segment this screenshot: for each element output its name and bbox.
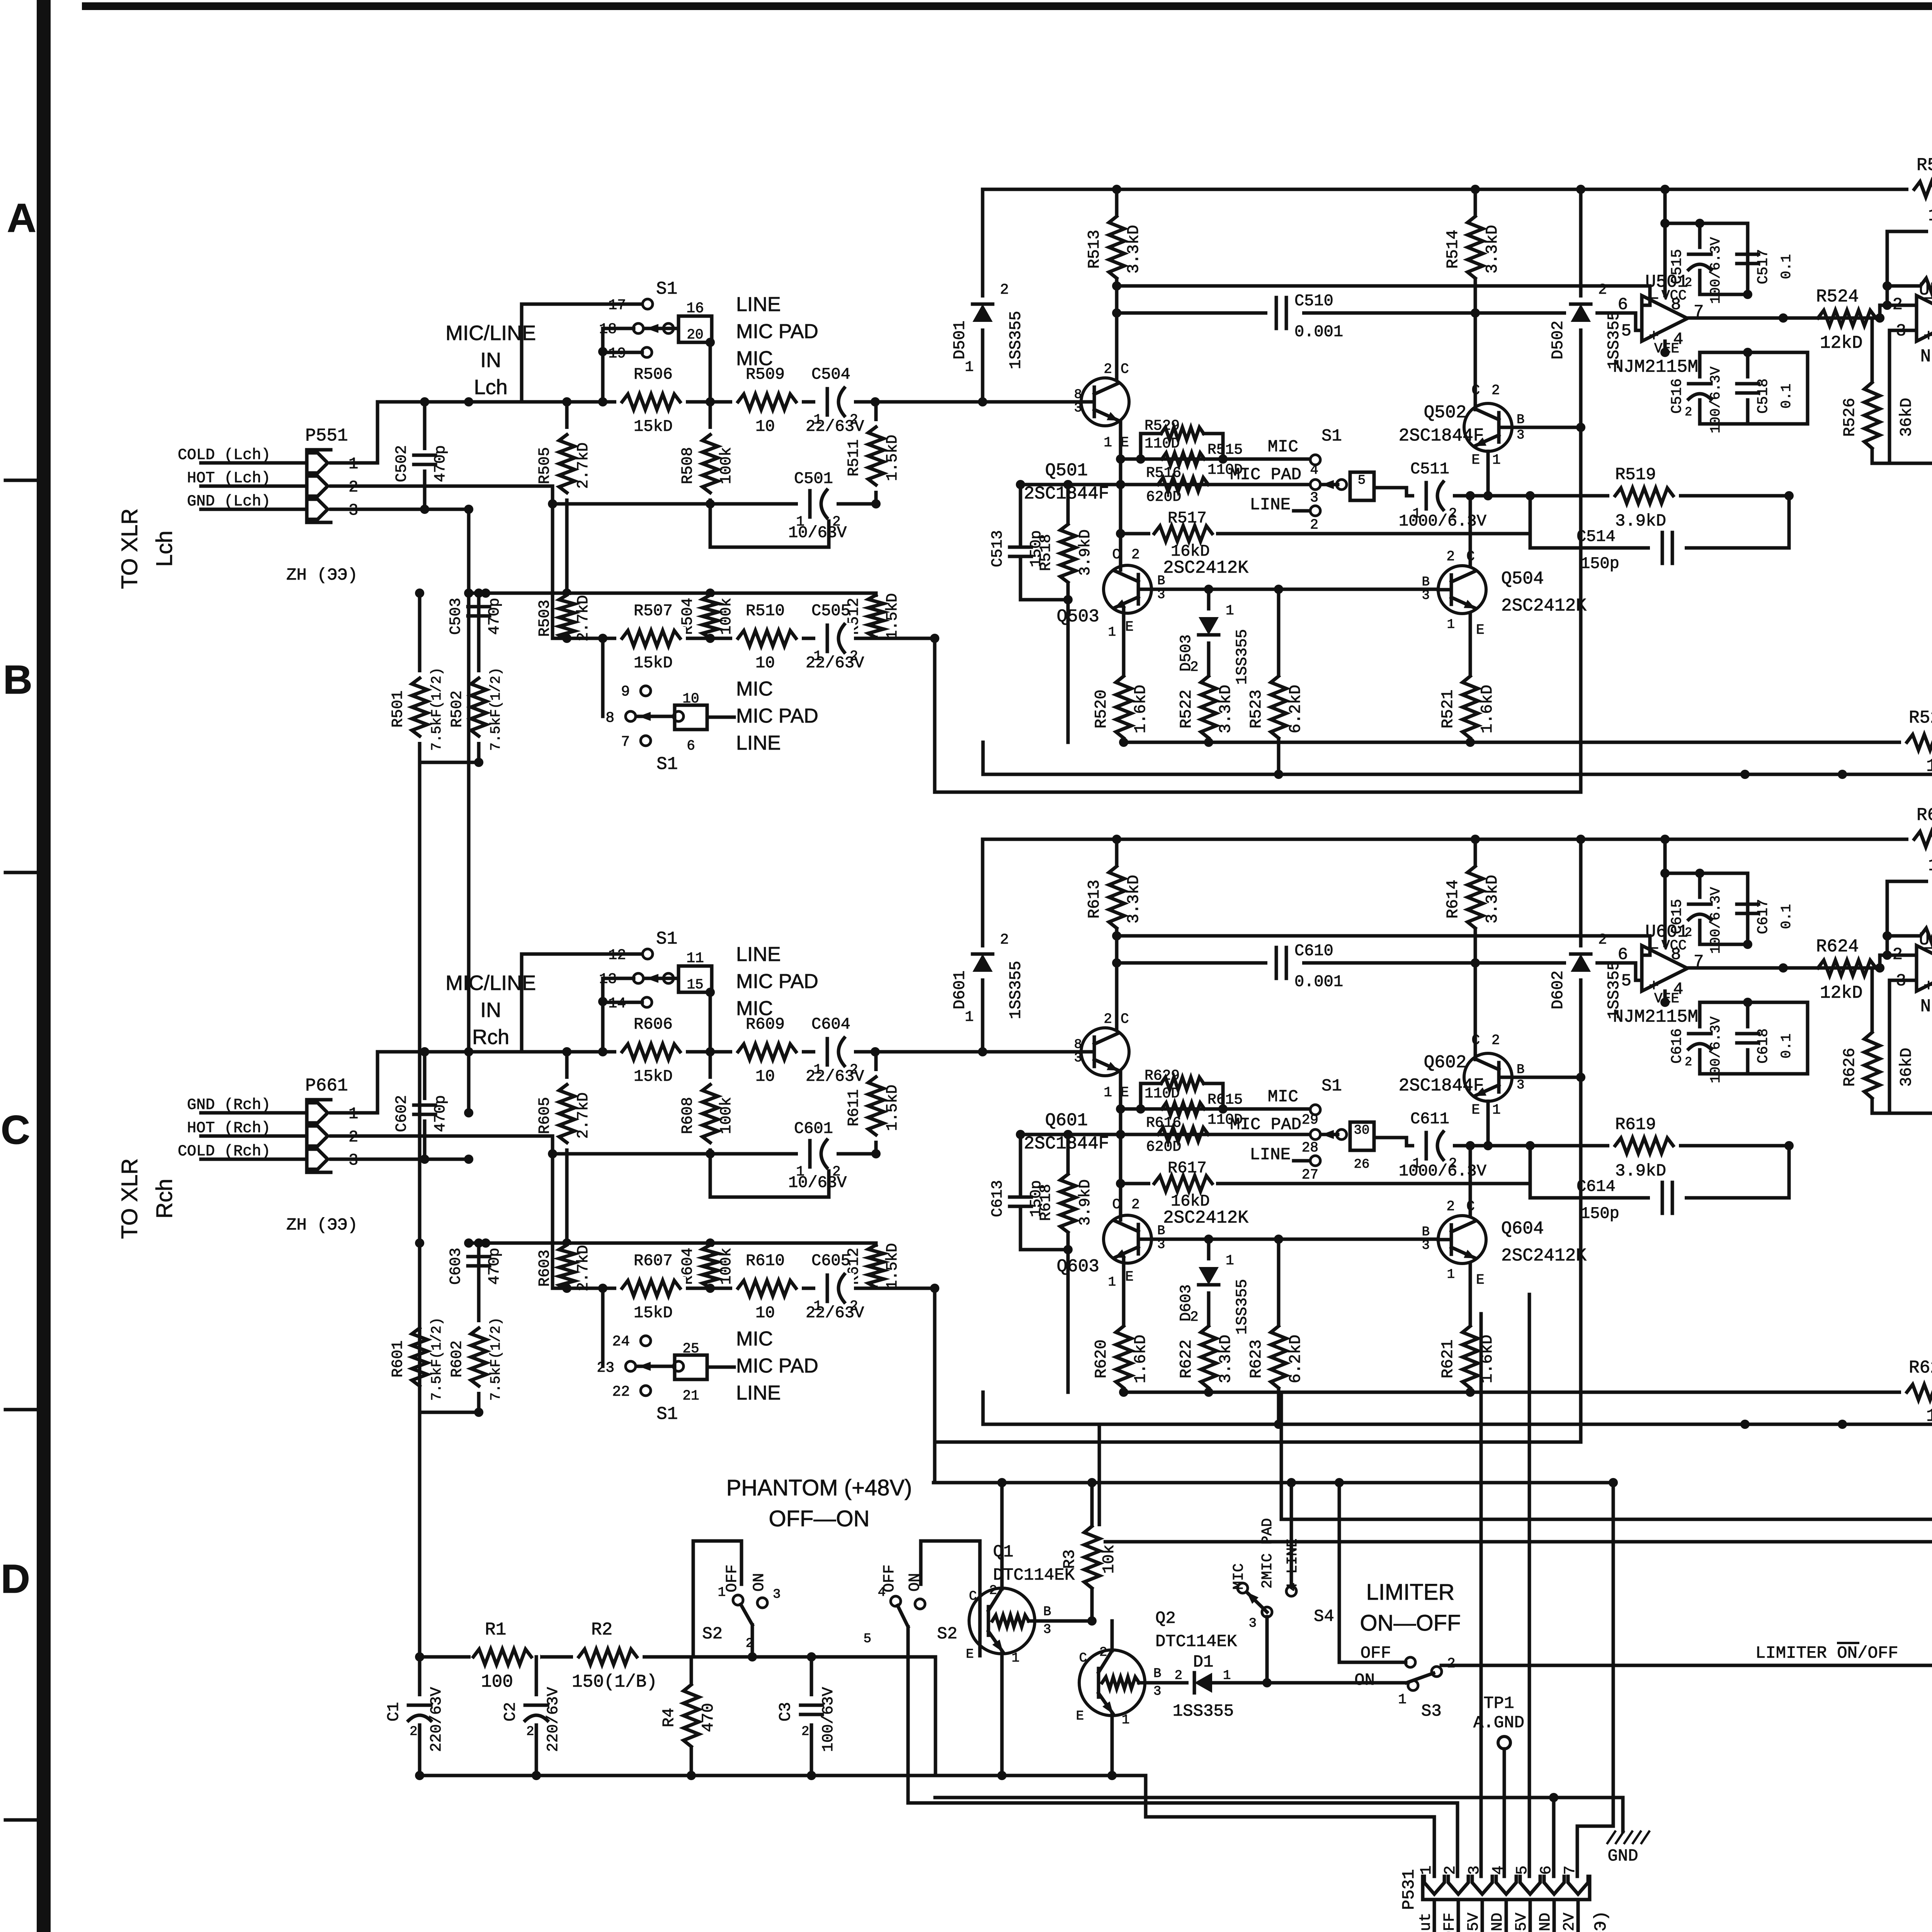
svg-text:2: 2 (1685, 405, 1692, 419)
svg-text:S4: S4 (1314, 1607, 1334, 1626)
switch S1 mid box (1350, 472, 1374, 500)
capacitor C502 470p (423, 402, 427, 509)
svg-text:R626: R626 (1840, 1048, 1859, 1087)
svg-text:C601: C601 (794, 1119, 833, 1138)
switch S1 box (679, 966, 712, 992)
svg-text:3: 3 (1517, 428, 1524, 443)
svg-text:12kD: 12kD (1820, 983, 1862, 1003)
wire vee rail link (1806, 1002, 1810, 1074)
resistor R621 1.6kD (1469, 1324, 1472, 1392)
diode D503 1SS355 (1207, 589, 1211, 672)
op-amp U501 NJM2115M second (1917, 296, 1932, 341)
border tick (5, 1818, 39, 1822)
svg-text:0.1: 0.1 (1779, 1034, 1794, 1059)
svg-text:C604: C604 (811, 1015, 850, 1034)
wire feedback node (1880, 305, 1917, 318)
svg-text:16kD: 16kD (1171, 1192, 1210, 1211)
capacitor C604 22/63V (815, 1036, 854, 1067)
resistor R514 3.3kD (1474, 189, 1477, 383)
svg-text:22/63V: 22/63V (806, 654, 864, 672)
svg-text:470p: 470p (486, 1248, 503, 1285)
wire phantom bottom rail (420, 1774, 1146, 1777)
svg-text:R603: R603 (536, 1250, 554, 1287)
resistor R612 1.5kD (874, 1243, 878, 1288)
svg-text:NJM2115M: NJM2115M (1920, 997, 1932, 1017)
svg-text:3: 3 (1074, 401, 1082, 416)
svg-text:2SC2412K: 2SC2412K (1163, 558, 1248, 578)
resistor R517 16kD (1121, 532, 1530, 536)
resistor R615 110D (1121, 1107, 1310, 1111)
svg-text:Q2: Q2 (1155, 1609, 1176, 1628)
svg-text:R523: R523 (1247, 690, 1265, 729)
svg-text:7.5kF(1/2): 7.5kF(1/2) (488, 667, 504, 751)
svg-text:3.3kD: 3.3kD (1483, 875, 1502, 923)
svg-text:22/63V: 22/63V (806, 1304, 864, 1322)
svg-text:C: C (1121, 1011, 1129, 1027)
svg-text:Lch: Lch (474, 376, 507, 399)
svg-text:S1: S1 (656, 929, 677, 949)
wire Q504 collector (1469, 496, 1472, 566)
capacitor C616 100/6.3V and C618 0.1 (1700, 1001, 1808, 1004)
svg-text:2: 2 (526, 1725, 534, 1739)
svg-text:1: 1 (1226, 1253, 1234, 1269)
resistor R610 10 (732, 1277, 802, 1300)
wire P531 pin2 wrap (908, 1803, 1458, 1876)
svg-text:Q602: Q602 (1424, 1053, 1466, 1073)
svg-text:2: 2 (1131, 1197, 1140, 1213)
svg-text:R514: R514 (1444, 230, 1462, 269)
resistor R516 620D (1020, 483, 1310, 486)
svg-text:1000/6.3V: 1000/6.3V (1399, 512, 1486, 531)
svg-text:1000/6.3V: 1000/6.3V (1399, 1162, 1486, 1180)
wire Q2 collector (1111, 1621, 1114, 1651)
svg-text:C1: C1 (384, 1702, 403, 1721)
svg-text:GND (Lch): GND (Lch) (187, 493, 270, 510)
svg-text:3.9kD: 3.9kD (1615, 512, 1666, 531)
svg-text:3.9kD: 3.9kD (1615, 1162, 1666, 1181)
svg-text:1: 1 (1447, 617, 1455, 632)
svg-text:Q502: Q502 (1424, 403, 1466, 423)
wire Q2 emitter (1111, 1714, 1114, 1776)
resistor R4 470 (690, 1657, 693, 1776)
svg-text:S1: S1 (656, 754, 678, 774)
svg-text:1: 1 (718, 1585, 726, 1600)
svg-text:OFF: OFF (724, 1565, 741, 1592)
svg-text:2: 2 (1685, 276, 1692, 290)
svg-text:D601: D601 (951, 971, 969, 1010)
svg-text:MIC: MIC (1231, 1563, 1247, 1590)
diode D602 1SS355 (1579, 839, 1583, 1077)
switch S1 mid box (1350, 1122, 1374, 1150)
svg-text:1SS355: 1SS355 (1007, 311, 1025, 369)
svg-text:L ON-OFF: L ON-OFF (1441, 1913, 1459, 1932)
resistor R502 7.5kF(1/2) (477, 593, 481, 762)
svg-text:E: E (1471, 1102, 1480, 1118)
wire P531 pin7 wrap (1577, 1483, 1613, 1876)
wire power rail to gnd (935, 1796, 1623, 1799)
svg-text:TP1: TP1 (1483, 1694, 1514, 1713)
resistor R510 10 (732, 627, 802, 650)
wire pin1 riser (331, 1052, 378, 1113)
svg-text:5: 5 (864, 1632, 871, 1646)
svg-text:COLD (Rch): COLD (Rch) (178, 1143, 270, 1160)
svg-text:IN: IN (480, 998, 501, 1022)
wire top rail Rch (983, 838, 1932, 841)
resistor R607 15kD (616, 1277, 686, 1300)
capacitor C501 10/63V (710, 504, 829, 547)
svg-text:220/63V: 220/63V (545, 1687, 562, 1752)
svg-text:22: 22 (612, 1384, 630, 1400)
svg-text:2: 2 (1104, 361, 1112, 377)
svg-text:LINE: LINE (736, 293, 781, 316)
svg-text:29: 29 (1302, 1112, 1318, 1128)
wire U501 output (1687, 966, 1812, 970)
svg-text:1: 1 (1398, 1692, 1406, 1708)
svg-text:10: 10 (755, 654, 775, 672)
diode D601 1SS355 (981, 839, 985, 1052)
svg-text:2: 2 (1190, 1309, 1199, 1325)
svg-text:R524: R524 (1816, 287, 1859, 307)
svg-text:27: 27 (1302, 1167, 1318, 1183)
svg-text:3: 3 (1153, 1684, 1161, 1699)
svg-text:R606: R606 (634, 1015, 673, 1034)
capacitor C514 150p (1530, 496, 1789, 548)
wire gnd rail (983, 1423, 1932, 1426)
resistor R523 6.2kD (1277, 589, 1281, 774)
svg-text:R617: R617 (1168, 1159, 1207, 1177)
svg-text:R518: R518 (1037, 534, 1055, 571)
wire Q1 emitter (1000, 1652, 1004, 1776)
svg-text:C3: C3 (776, 1702, 795, 1721)
resistor R524 12kD (1812, 306, 1882, 330)
svg-text:ON: ON (1354, 1671, 1375, 1690)
svg-text:R613: R613 (1085, 880, 1104, 919)
svg-text:8: 8 (1671, 945, 1681, 964)
svg-text:R614: R614 (1444, 880, 1462, 919)
border frame left bar (37, 0, 51, 1932)
diode D501 1SS355 (981, 189, 985, 402)
svg-text:MIC: MIC (736, 1328, 773, 1350)
svg-text:10: 10 (1926, 1406, 1932, 1426)
svg-text:C: C (1079, 1651, 1087, 1666)
capacitor C619 56p (1887, 881, 1932, 968)
svg-text:B: B (1157, 1224, 1165, 1238)
svg-text:C610: C610 (1294, 942, 1333, 960)
wire P531 pin3 bus (1480, 1314, 1483, 1876)
svg-text:8: 8 (1074, 388, 1082, 402)
transistor Q602 2SC1844F (1464, 1053, 1512, 1101)
svg-text:2: 2 (1685, 1055, 1692, 1069)
svg-text:S3: S3 (1421, 1702, 1442, 1721)
svg-text:+: + (1923, 327, 1932, 346)
capacitor C515 100/6.3V and C517 0.1 (1665, 223, 1748, 294)
svg-text:2: 2 (1104, 1011, 1112, 1027)
resistor R525 18kD (1887, 284, 1920, 288)
wire pin2 riser (331, 1136, 553, 1288)
svg-text:1: 1 (1108, 625, 1116, 640)
svg-text:HOT (Rch): HOT (Rch) (187, 1120, 270, 1137)
wire Q1 base link (1035, 1619, 1092, 1623)
svg-text:3.9kD: 3.9kD (1077, 1179, 1094, 1226)
svg-text:C: C (969, 1589, 977, 1604)
resistor R522 3.3kD (1207, 672, 1211, 742)
svg-text:3.3kD: 3.3kD (1483, 225, 1502, 274)
svg-text:LINE: LINE (736, 943, 781, 966)
svg-text:1: 1 (1418, 1866, 1435, 1875)
svg-text:R511: R511 (845, 439, 863, 476)
svg-text:15kD: 15kD (634, 1067, 673, 1086)
svg-text:COLD (Lch): COLD (Lch) (178, 447, 270, 464)
connector P661 (307, 1100, 331, 1172)
svg-text:21: 21 (682, 1388, 699, 1404)
svg-text:3: 3 (1310, 490, 1318, 506)
svg-text:100/63V: 100/63V (820, 1687, 837, 1752)
resistor R2 150(1/B) (573, 1645, 643, 1668)
svg-text:ON—OFF: ON—OFF (1360, 1611, 1461, 1636)
wire gnd rail (983, 773, 1932, 776)
wire plus input line / C510 row (1117, 963, 1642, 980)
wire emitter-resistor rail (1124, 1391, 1615, 1394)
svg-text:0.1: 0.1 (1779, 904, 1794, 929)
svg-text:R519: R519 (1615, 465, 1656, 485)
svg-text:MIC: MIC (736, 678, 773, 700)
svg-text:MIC: MIC (1268, 437, 1298, 457)
svg-text:22/63V: 22/63V (806, 417, 864, 436)
wire top rail Lch (983, 188, 1932, 191)
svg-text:R628: R628 (1909, 1358, 1932, 1378)
svg-text:C603: C603 (447, 1248, 465, 1285)
svg-text:B: B (1157, 574, 1165, 588)
resistor R619 3.9kD (1609, 1134, 1679, 1157)
wire Q503 base row (1151, 1238, 1438, 1241)
svg-text:C: C (1471, 383, 1480, 398)
svg-text:5: 5 (1621, 971, 1631, 991)
svg-text:PHANTOM (+48V): PHANTOM (+48V) (726, 1475, 912, 1500)
svg-text:R1: R1 (485, 1620, 506, 1640)
svg-text:C518: C518 (1755, 378, 1772, 413)
wire plus input line / C510 row (1117, 313, 1642, 330)
svg-text:3: 3 (1422, 1238, 1430, 1253)
svg-text:7.5kF(1/2): 7.5kF(1/2) (429, 667, 445, 751)
svg-text:24: 24 (612, 1333, 630, 1350)
svg-text:2: 2 (1598, 282, 1607, 298)
svg-text:2.7kD: 2.7kD (575, 442, 592, 489)
svg-text:C511: C511 (1410, 460, 1449, 478)
svg-text:0.001: 0.001 (1294, 323, 1343, 341)
svg-text:P661: P661 (305, 1076, 348, 1096)
svg-text:ON: ON (751, 1573, 768, 1592)
svg-text:+: + (1923, 977, 1932, 996)
wire R519 row (1470, 494, 1789, 498)
svg-text:D501: D501 (951, 321, 969, 360)
wire C511 row (1406, 1144, 1470, 1148)
wire main input row (378, 1050, 1081, 1054)
svg-text:C: C (1112, 1197, 1121, 1213)
svg-text:1: 1 (1012, 1651, 1019, 1666)
svg-text:R503: R503 (536, 600, 554, 637)
svg-text:E: E (1125, 619, 1134, 635)
svg-text:R605: R605 (536, 1097, 554, 1134)
wire phantom top rail (934, 1481, 1613, 1485)
svg-text:MIC PAD: MIC PAD (736, 320, 818, 343)
svg-text:4: 4 (878, 1585, 886, 1600)
svg-text:2: 2 (1000, 282, 1009, 298)
resistor R526 36kD (1871, 318, 1874, 463)
svg-text:10: 10 (755, 1304, 775, 1322)
svg-text:B: B (1422, 575, 1430, 590)
svg-text:R621: R621 (1439, 1340, 1457, 1379)
svg-text:620D: 620D (1146, 489, 1181, 505)
svg-text:R516: R516 (1146, 465, 1181, 481)
capacitor C611 1000/6.3V (1414, 1130, 1453, 1161)
svg-text:3: 3 (1249, 1616, 1257, 1631)
resistor R3 10k (1090, 1483, 1094, 1621)
svg-text:R509: R509 (746, 365, 785, 384)
wire Q504 collector (1469, 1146, 1472, 1216)
transistor Q604 2SC2412K (1438, 1216, 1486, 1264)
svg-text:R627: R627 (1917, 805, 1932, 825)
svg-text:16: 16 (686, 300, 704, 317)
svg-text:6: 6 (1618, 295, 1628, 315)
svg-text:470p: 470p (432, 445, 449, 482)
switch S1 Lch lower (601, 638, 605, 716)
capacitor C605 22/63V (815, 1273, 854, 1304)
wire pin3 gnd stub (331, 508, 469, 511)
resistor R529 110D upper loop (1141, 434, 1161, 459)
svg-text:C: C (1112, 547, 1121, 563)
border tick (5, 479, 39, 482)
svg-text:36kD: 36kD (1897, 1048, 1916, 1087)
svg-text:B: B (3, 657, 32, 702)
svg-text:1: 1 (1122, 1713, 1129, 1728)
svg-text:MIC: MIC (1268, 1087, 1298, 1107)
transistor Q1 DTC114EK (969, 1588, 1035, 1654)
svg-text:2SC2412K: 2SC2412K (1163, 1208, 1248, 1228)
svg-text:LIMITER: LIMITER (1366, 1580, 1455, 1605)
wire P531 pin1 wrap (1146, 1776, 1434, 1876)
wire HOT (Lch) lead (201, 485, 307, 488)
wire Q504 emitter (1469, 613, 1472, 674)
svg-text:A. -5V: A. -5V (1465, 1913, 1483, 1932)
svg-text:R3: R3 (1060, 1549, 1079, 1569)
svg-text:R501: R501 (389, 690, 407, 728)
transistor Q603 2SC2412K (1104, 1215, 1151, 1263)
svg-text:Rch: Rch (152, 1179, 177, 1218)
svg-text:15: 15 (687, 977, 703, 993)
resistor R518 3.9kD (1066, 485, 1070, 600)
svg-text:R607: R607 (634, 1252, 673, 1270)
wire Rch LINE wrap to phantom rail (933, 1442, 937, 1483)
svg-text:0.1: 0.1 (1779, 254, 1794, 279)
resistor R504 100k (709, 593, 712, 638)
svg-text:R506: R506 (634, 365, 673, 384)
resistor R507 15kD (616, 627, 686, 650)
resistor R601 7.5kF(1/2) (418, 1243, 422, 1412)
connector P531 (1423, 1876, 1590, 1900)
svg-text:2.7kD: 2.7kD (575, 1245, 592, 1291)
resistor R520 1.6kD (1122, 674, 1126, 742)
svg-text:R629: R629 (1145, 1068, 1180, 1084)
svg-text:R610: R610 (746, 1252, 785, 1270)
wire C511 row (1406, 494, 1470, 498)
op-amp U501 NJM2115M first (1642, 296, 1687, 341)
capacitor C503 470p (465, 601, 493, 622)
wire mic row 2 (553, 1287, 935, 1290)
svg-text:R522: R522 (1177, 690, 1196, 729)
capacitor C519 56p (1887, 231, 1932, 318)
border frame top bar (82, 2, 1932, 10)
svg-text:E: E (1471, 452, 1480, 468)
wire COLD (Lch) lead (201, 461, 307, 465)
transistor Q504 2SC2412K (1438, 566, 1486, 614)
wire main input row (378, 400, 1081, 404)
svg-text:1.5kD: 1.5kD (884, 435, 901, 481)
wire U501 vcc (1663, 839, 1667, 946)
wire C501 row (553, 1152, 876, 1156)
svg-text:R508: R508 (679, 447, 697, 484)
wire HOT (Rch) lead (201, 1134, 307, 1138)
wire GND (Lch) lead (201, 508, 307, 511)
capacitor C513 150p (1019, 485, 1022, 546)
capacitor C603 470p (465, 1251, 493, 1272)
svg-text:2: 2 (989, 1583, 997, 1598)
wire emitter cascode column (1119, 1071, 1122, 1220)
svg-text:B: B (1517, 1063, 1524, 1077)
svg-text:R526: R526 (1840, 398, 1859, 437)
svg-text:3.3kD: 3.3kD (1216, 685, 1235, 733)
svg-text:2: 2 (1598, 932, 1607, 948)
capacitor C613 150p (1019, 1134, 1022, 1196)
wire C501 row (553, 502, 876, 506)
wire R501 R502 bottom (420, 1411, 479, 1414)
svg-text:10k: 10k (1100, 1544, 1118, 1574)
svg-text:C505: C505 (811, 602, 850, 620)
svg-text:MIC PAD: MIC PAD (736, 1355, 818, 1377)
wire Q503 emitter to R520 (1122, 608, 1126, 674)
svg-text:1: 1 (1223, 1668, 1231, 1683)
capacitor C505 22/63V (815, 623, 854, 654)
svg-text:S1: S1 (656, 279, 677, 299)
wire phantom feed (418, 762, 422, 1657)
resistor R606 15kD (616, 1040, 686, 1063)
svg-text:2: 2 (1492, 1032, 1500, 1048)
resistor R608 100k (709, 1052, 712, 1154)
ground symbol GND (1607, 1832, 1615, 1843)
svg-text:30: 30 (1354, 1123, 1370, 1138)
svg-text:3.3kD: 3.3kD (1124, 225, 1143, 274)
svg-text:R520: R520 (1092, 690, 1111, 729)
svg-text:12kD: 12kD (1820, 333, 1862, 353)
svg-text:R502: R502 (449, 690, 466, 728)
svg-text:7.5kF(1/2): 7.5kF(1/2) (488, 1317, 504, 1401)
capacitor C615 100/6.3V and C617 0.1 (1665, 873, 1748, 944)
capacitor C520 10/16V (1872, 462, 1932, 465)
svg-text:R608: R608 (679, 1097, 697, 1134)
svg-text:OFF: OFF (1361, 1644, 1391, 1663)
wire LINE wrap (935, 427, 1581, 792)
svg-text:8: 8 (1671, 295, 1681, 315)
wire vee rail link (1806, 352, 1810, 424)
svg-text:3: 3 (1422, 588, 1430, 603)
svg-text:ZH (ЭЭ): ZH (ЭЭ) (286, 1216, 358, 1235)
resistor R624 12kD (1812, 956, 1882, 980)
wire P531 pin tails (1433, 1900, 1436, 1932)
svg-text:2: 2 (410, 1725, 417, 1739)
svg-text:9: 9 (621, 684, 630, 700)
resistor R623 6.2kD (1277, 1239, 1281, 1424)
svg-text:1: 1 (965, 359, 974, 376)
resistor R616 620D (1020, 1133, 1310, 1136)
